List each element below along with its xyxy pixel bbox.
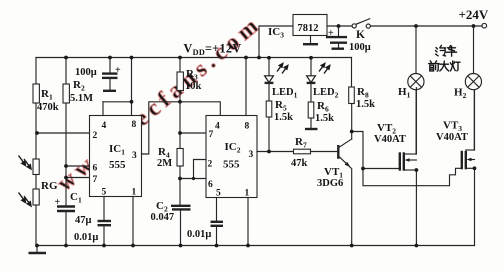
- svg-text:6: 6: [93, 164, 98, 174]
- svg-text:RG: RG: [41, 180, 58, 192]
- svg-text:5.1M: 5.1M: [70, 93, 93, 104]
- svg-text:7: 7: [209, 130, 214, 140]
- svg-text:+24V: +24V: [459, 7, 489, 22]
- svg-text:1.5k: 1.5k: [356, 99, 375, 110]
- svg-text:555: 555: [223, 159, 240, 171]
- svg-text:+: +: [55, 197, 61, 208]
- svg-text:470k: 470k: [37, 102, 59, 113]
- svg-text:47μ: 47μ: [75, 215, 92, 226]
- svg-text:V40AT: V40AT: [374, 134, 406, 145]
- svg-text:1.5k: 1.5k: [315, 113, 334, 124]
- svg-text:4: 4: [215, 122, 220, 132]
- svg-text:1: 1: [245, 189, 250, 199]
- svg-text:+: +: [115, 65, 121, 76]
- svg-text:100μ: 100μ: [75, 67, 97, 78]
- svg-text:4: 4: [102, 121, 107, 131]
- svg-text:0.01μ: 0.01μ: [74, 232, 98, 243]
- svg-text:1.5k: 1.5k: [274, 112, 293, 123]
- svg-text:6: 6: [208, 180, 213, 190]
- svg-text:1: 1: [132, 188, 137, 198]
- svg-text:10k: 10k: [185, 81, 202, 92]
- svg-text:8: 8: [245, 122, 250, 132]
- svg-text:7812: 7812: [298, 23, 319, 34]
- svg-text:8: 8: [132, 120, 137, 130]
- svg-text:2M: 2M: [157, 158, 172, 169]
- svg-text:3DG6: 3DG6: [317, 178, 343, 189]
- svg-text:7: 7: [93, 175, 98, 185]
- svg-text:100μ: 100μ: [349, 42, 371, 53]
- svg-text:47k: 47k: [291, 158, 308, 169]
- svg-text:2: 2: [93, 131, 98, 141]
- svg-text:3: 3: [132, 151, 137, 161]
- svg-text:3: 3: [249, 150, 254, 160]
- svg-text:555: 555: [109, 159, 126, 171]
- svg-text:2: 2: [208, 160, 213, 170]
- svg-text:+: +: [328, 28, 334, 39]
- svg-text:VDD=+12V: VDD=+12V: [184, 42, 242, 58]
- svg-text:V40AT: V40AT: [436, 132, 468, 143]
- svg-text:K: K: [356, 29, 365, 41]
- svg-text:0.01μ: 0.01μ: [187, 229, 211, 240]
- svg-text:0.047: 0.047: [151, 212, 175, 223]
